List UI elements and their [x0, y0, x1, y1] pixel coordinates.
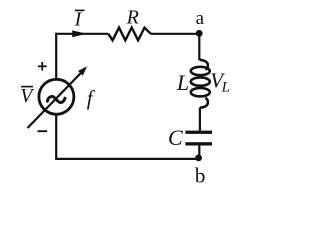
ac source sine tilde — [47, 97, 65, 103]
node b dot — [195, 155, 202, 162]
ac source V circle — [39, 79, 74, 114]
wire top left horizontal — [56, 33, 108, 35]
node a dot — [196, 30, 203, 37]
svg-text:C: C — [168, 125, 183, 150]
svg-text:L: L — [176, 70, 189, 95]
wire top right horizontal — [151, 33, 199, 35]
current arrowhead — [72, 30, 87, 37]
wire left vertical upper — [55, 33, 57, 80]
svg-text:L: L — [221, 79, 230, 95]
wire bottom horizontal — [55, 158, 199, 160]
capacitor C3 bottom plate — [185, 142, 212, 145]
svg-text:b: b — [195, 163, 206, 187]
wire capacitor to node b — [198, 144, 200, 158]
wire inductor to capacitor — [199, 108, 201, 131]
inductor L coil — [191, 60, 210, 108]
minus sign — [38, 130, 48, 132]
wire left vertical lower — [55, 114, 57, 159]
plus sign — [38, 65, 47, 67]
svg-text:a: a — [196, 8, 205, 29]
resistor R1 zigzag — [108, 28, 151, 41]
capacitor C3 top plate — [185, 131, 212, 134]
svg-text:R: R — [126, 7, 139, 29]
svg-text:I: I — [74, 8, 83, 30]
wire right vertical node a to inductor — [198, 34, 200, 60]
variable-frequency arrow through source — [28, 72, 82, 128]
